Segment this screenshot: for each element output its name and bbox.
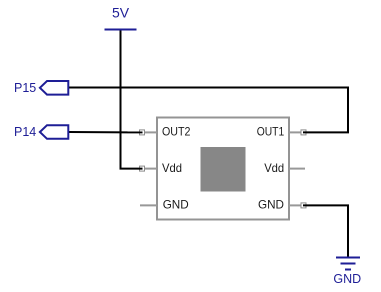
svg-text:5V: 5V	[112, 4, 130, 20]
wire 5V vertical to Vdd row	[121, 31, 143, 169]
wire P15 to right rail	[69, 87, 348, 89]
pin GND left (unconnected)	[140, 198, 189, 212]
IC U1 body	[157, 118, 289, 220]
svg-text:Vdd: Vdd	[264, 161, 284, 175]
svg-text:Vdd: Vdd	[162, 161, 182, 175]
pin OUT2	[140, 124, 191, 138]
svg-text:GND: GND	[258, 198, 284, 212]
svg-text:GND: GND	[333, 272, 361, 286]
pin Vdd left	[140, 161, 183, 175]
svg-text:P15: P15	[14, 81, 36, 95]
power symbol 5V bar	[105, 29, 137, 31]
wire P14 to OUT2	[69, 131, 143, 133]
IC center square	[201, 147, 246, 192]
pin GND right	[258, 198, 306, 212]
pin Vdd right (unconnected)	[264, 161, 305, 175]
wire right rail down to OUT1	[303, 87, 348, 133]
svg-text:OUT1: OUT1	[257, 124, 285, 138]
svg-text:P14: P14	[14, 125, 36, 139]
pin header P15	[14, 81, 68, 95]
svg-text:GND: GND	[163, 198, 189, 212]
wire GND pin to ground	[303, 205, 348, 257]
svg-text:OUT2: OUT2	[162, 124, 191, 138]
ground symbol	[336, 258, 360, 270]
pin OUT1	[257, 124, 306, 138]
pin header P14	[14, 125, 68, 139]
